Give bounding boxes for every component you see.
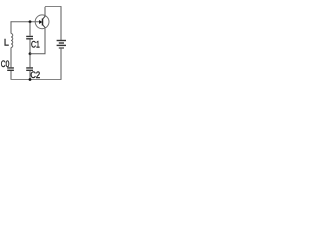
transistor collector diagonal [43,16,46,19]
node dot top [29,20,32,23]
wire top right horizontal [45,6,62,8]
battery short plate 2 [59,47,64,49]
wire right down to battery [60,7,62,41]
wire L to C0 [10,48,12,68]
battery long plate 2 [57,44,66,46]
node dot emitter junction [29,52,32,55]
capacitor C0 plates [7,68,14,70]
bottom rail [11,79,62,81]
svg-text:C0: C0 [1,59,10,69]
battery B1 long plate 1 [57,40,66,42]
transistor Q1 circle [35,15,49,29]
capacitor C2 plates [26,68,33,70]
wire emitter jog [30,29,45,54]
wire C2 branch [29,54,31,68]
wire C1 to emitter node [29,39,31,53]
battery short plate 1 [59,42,64,44]
wire collector vertical [44,7,46,16]
wire battery to rail [60,49,62,80]
svg-text:L: L [4,37,9,47]
transistor base arrow [39,20,42,24]
node dot bottom [29,78,32,81]
wire base lead horizontal [11,21,40,23]
wire C0 to rail [10,71,12,80]
svg-text:C2: C2 [30,70,40,80]
svg-text:C1: C1 [31,39,40,49]
wire C2 to rail [29,71,31,80]
inductor L coil [11,34,13,48]
transistor base bar [42,19,44,26]
wire left branch upper [10,21,12,33]
transistor emitter diagonal [43,25,46,28]
capacitor C1 plates [26,36,33,38]
wire C1 branch upper [29,22,31,36]
